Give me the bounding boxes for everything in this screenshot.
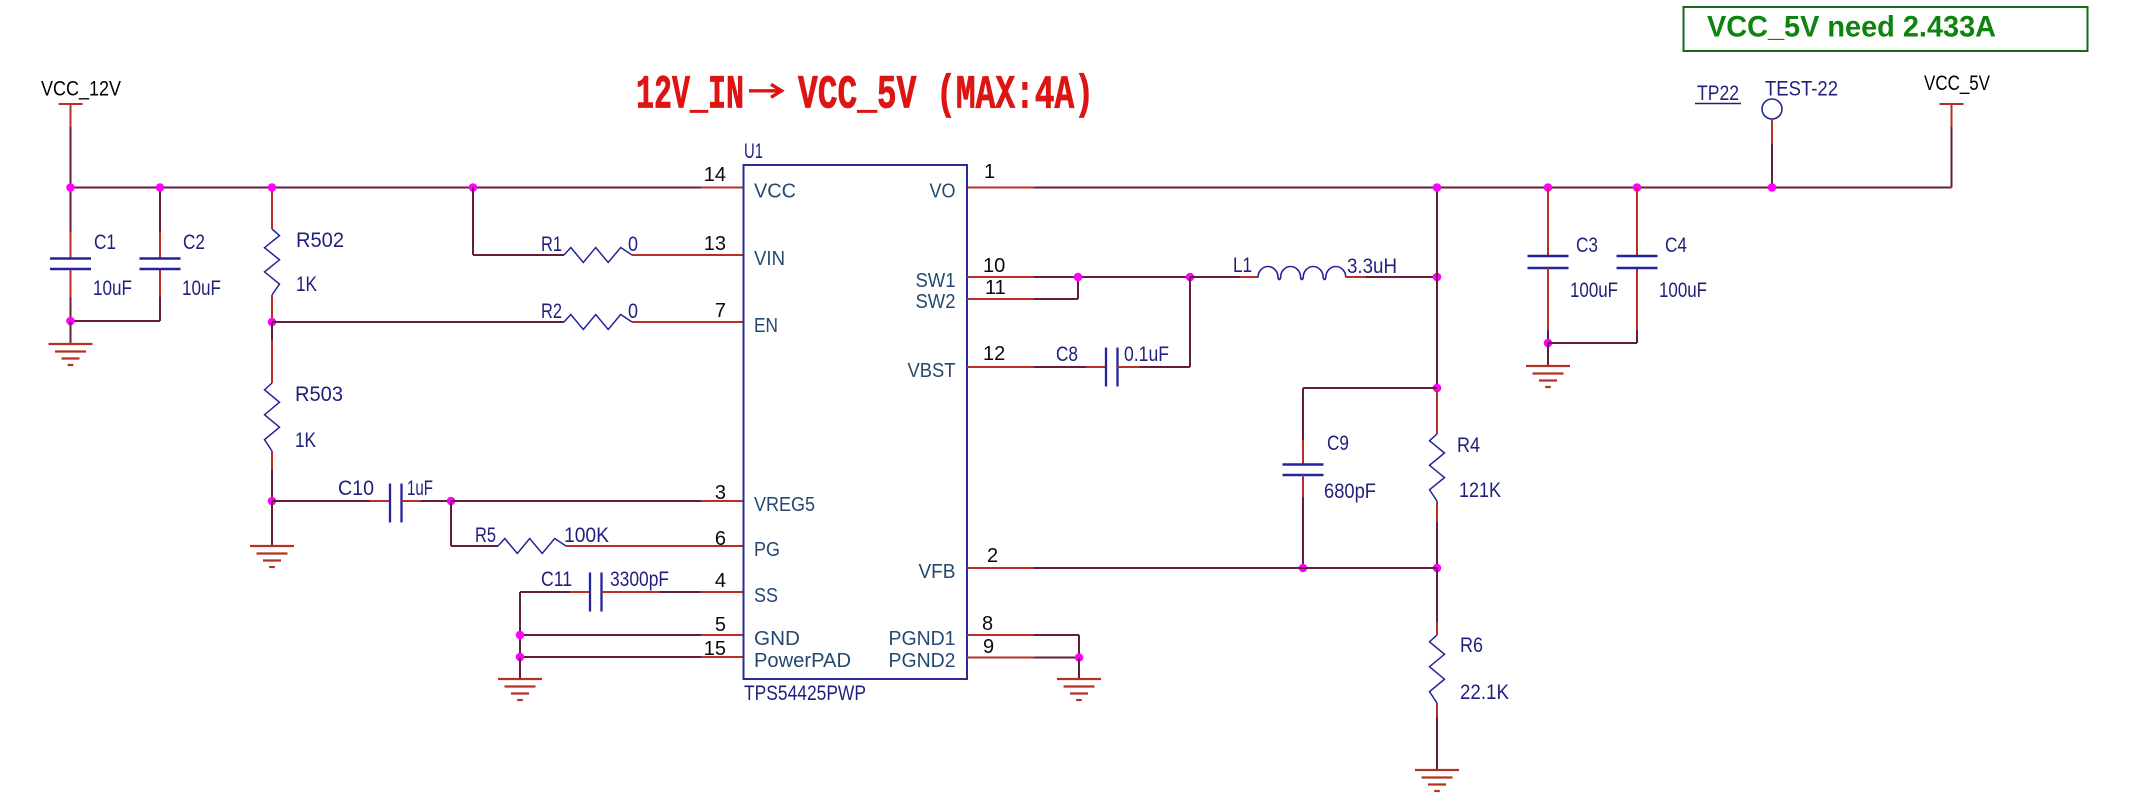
- capacitor C9 680pF: [1283, 465, 1324, 476]
- wire VFB pin2: [967, 567, 1034, 569]
- svg-text:VBST: VBST: [908, 360, 956, 382]
- op-amp U1 TPS54425PWP box: [744, 165, 968, 679]
- wire testpoint down: [1771, 119, 1773, 144]
- svg-text:7: 7: [715, 300, 726, 322]
- wire PGND1 pin8: [967, 634, 1034, 636]
- node bus C4: [1633, 183, 1642, 192]
- node pin15: [516, 653, 525, 662]
- svg-text:C11: C11: [541, 568, 572, 591]
- capacitor C10 1uF: [272, 500, 370, 502]
- svg-text:8: 8: [982, 613, 993, 635]
- svg-text:PG: PG: [754, 539, 780, 561]
- svg-text:R5: R5: [475, 524, 496, 547]
- capacitor C1: [70, 188, 72, 233]
- svg-text:U1: U1: [744, 140, 763, 163]
- svg-text:C10: C10: [338, 477, 374, 500]
- wire VBST pin12: [967, 366, 1034, 368]
- svg-text:VCC_5V (MAX:4A): VCC_5V (MAX:4A): [798, 70, 1094, 123]
- svg-text:0: 0: [628, 233, 638, 256]
- node C10 right: [447, 497, 456, 506]
- capacitor C2: [159, 188, 161, 233]
- resistor R6 22.1K: [1436, 568, 1438, 622]
- svg-text:121K: 121K: [1459, 479, 1501, 502]
- node C3 bottom: [1544, 339, 1553, 348]
- resistor R503 1K: [271, 322, 273, 340]
- node pin5: [516, 631, 525, 640]
- node C9 bottom: [1299, 564, 1308, 573]
- svg-text:C2: C2: [183, 231, 205, 254]
- wire main bus VCC rail: [71, 187, 702, 189]
- node bus to R1: [469, 183, 478, 192]
- wire C10 to VREG5 pin3: [451, 500, 701, 502]
- ground below R503/C10: [271, 501, 273, 546]
- node SW junction: [1074, 273, 1083, 282]
- svg-text:100K: 100K: [564, 524, 609, 547]
- node R502 top: [268, 183, 277, 192]
- svg-text:GND: GND: [754, 628, 800, 650]
- svg-text:10: 10: [983, 255, 1005, 277]
- svg-text:100uF: 100uF: [1659, 279, 1707, 302]
- svg-text:13: 13: [704, 233, 726, 255]
- svg-text:PowerPAD: PowerPAD: [754, 650, 851, 672]
- node C1 top: [66, 183, 75, 192]
- pin names U1 left: [754, 181, 956, 673]
- wire VO bus right: [967, 187, 1034, 189]
- svg-text:C9: C9: [1327, 432, 1349, 455]
- node C2 top: [156, 183, 165, 192]
- svg-text:R502: R502: [296, 229, 344, 252]
- wire C9 branch top: [1303, 387, 1437, 389]
- inductor L1 3.3uH: [1190, 276, 1240, 278]
- svg-text:11: 11: [985, 277, 1006, 299]
- svg-text:12V_IN: 12V_IN: [636, 70, 744, 123]
- wire L1 node down to R4: [1436, 277, 1438, 390]
- ground below C11: [519, 657, 521, 679]
- svg-text:10uF: 10uF: [93, 277, 132, 300]
- node VFB junction: [1433, 564, 1442, 573]
- svg-text:1K: 1K: [296, 273, 317, 296]
- svg-text:PGND1: PGND1: [889, 628, 956, 650]
- svg-text:C8: C8: [1056, 343, 1078, 366]
- svg-text:680pF: 680pF: [1324, 480, 1376, 503]
- node PGND junction: [1075, 653, 1084, 662]
- svg-text:1: 1: [984, 161, 995, 183]
- svg-text:2: 2: [987, 545, 998, 567]
- svg-text:0.1uF: 0.1uF: [1124, 343, 1169, 366]
- svg-text:VCC_12V: VCC_12V: [41, 78, 121, 101]
- resistor R1 0 ohm: [473, 254, 564, 256]
- node R4 top / C9 branch: [1433, 384, 1442, 393]
- svg-text:10uF: 10uF: [182, 277, 221, 300]
- svg-text:TEST-22: TEST-22: [1765, 78, 1838, 101]
- node R502/R503/R2: [268, 318, 277, 327]
- svg-text:VCC_5V need 2.433A: VCC_5V need 2.433A: [1707, 11, 1996, 44]
- svg-text:1K: 1K: [295, 429, 316, 452]
- resistor R5 100K: [450, 501, 452, 546]
- ground below R6: [1415, 770, 1459, 791]
- resistor R4 121K: [1436, 390, 1438, 434]
- title text 12V_IN-> VCC_5V (MAX:4A): [636, 70, 1094, 123]
- svg-text:1uF: 1uF: [407, 477, 433, 500]
- svg-text:R2: R2: [541, 300, 562, 323]
- wire bus down to R1: [472, 188, 474, 256]
- resistor R502 1K: [271, 188, 273, 230]
- svg-text:VCC_5V: VCC_5V: [1924, 72, 1990, 95]
- wire PowerPAD pin15: [520, 656, 701, 658]
- svg-text:C4: C4: [1665, 234, 1687, 257]
- svg-text:R1: R1: [541, 233, 562, 256]
- svg-text:C1: C1: [94, 231, 116, 254]
- capacitor C11 3300pF: [520, 591, 570, 593]
- capacitor C8 0.1uF: [1106, 348, 1118, 387]
- svg-text:VFB: VFB: [919, 561, 956, 583]
- wire SW2 pin11: [967, 298, 1034, 300]
- svg-text:TP22: TP22: [1697, 82, 1739, 105]
- svg-text:15: 15: [704, 638, 726, 660]
- node bus C3: [1544, 183, 1553, 192]
- wire C11 left down: [519, 592, 521, 657]
- svg-text:SW2: SW2: [916, 291, 956, 313]
- capacitor C3 100uF: [1547, 188, 1549, 257]
- svg-text:C3: C3: [1576, 234, 1598, 257]
- node L1 out: [1433, 273, 1442, 282]
- wire C1-C2 bottom link: [71, 320, 161, 322]
- svg-text:SS: SS: [754, 585, 778, 607]
- svg-text:12: 12: [983, 343, 1005, 365]
- node R503 bottom C10 left: [268, 497, 277, 506]
- node C1 bottom: [66, 317, 75, 326]
- node bus 1437: [1433, 183, 1442, 192]
- svg-text:SW1: SW1: [916, 270, 956, 292]
- svg-text:22.1K: 22.1K: [1460, 681, 1509, 704]
- svg-text:6: 6: [715, 528, 726, 550]
- wire PGND2 pin9: [967, 657, 1034, 659]
- wire GND pin5: [520, 634, 701, 636]
- capacitor C4 100uF: [1636, 188, 1638, 257]
- svg-text:4: 4: [715, 570, 726, 592]
- pin numbers U1 left: [704, 161, 1006, 660]
- svg-text:14: 14: [704, 164, 726, 186]
- node SW to VBST cap: [1186, 273, 1195, 282]
- resistor R2 0 ohm: [272, 321, 564, 323]
- svg-text:PGND2: PGND2: [889, 650, 956, 672]
- svg-text:VREG5: VREG5: [754, 494, 815, 516]
- svg-text:3: 3: [715, 482, 726, 504]
- svg-text:3.3uH: 3.3uH: [1347, 255, 1397, 278]
- svg-text:VO: VO: [930, 181, 956, 203]
- wire C3-C4 bottom: [1548, 342, 1637, 344]
- svg-text:9: 9: [983, 636, 994, 658]
- svg-text:VIN: VIN: [754, 248, 785, 270]
- svg-text:0: 0: [628, 300, 638, 323]
- wire VCC_12V to bus: [70, 127, 72, 188]
- ground below C3: [1547, 343, 1549, 366]
- svg-text:100uF: 100uF: [1570, 279, 1618, 302]
- svg-text:L1: L1: [1233, 254, 1252, 277]
- svg-text:EN: EN: [754, 315, 778, 337]
- ground below PGND: [1078, 658, 1080, 680]
- svg-text:VCC: VCC: [754, 181, 796, 203]
- ground below C1: [70, 321, 72, 344]
- svg-text:5: 5: [715, 614, 726, 636]
- wire SW1 pin10: [967, 276, 1034, 278]
- green note box VCC_5V need 2.433A: [1684, 7, 2088, 51]
- svg-text:R503: R503: [295, 383, 343, 406]
- svg-text:TPS54425PWP: TPS54425PWP: [744, 682, 866, 705]
- wire bus down at 1437: [1436, 188, 1438, 278]
- svg-text:R4: R4: [1457, 434, 1480, 457]
- svg-text:R6: R6: [1460, 634, 1483, 657]
- svg-text:3300pF: 3300pF: [610, 568, 669, 591]
- node testpoint bus: [1768, 183, 1777, 192]
- wire VCC_5V to bus: [1951, 127, 1953, 188]
